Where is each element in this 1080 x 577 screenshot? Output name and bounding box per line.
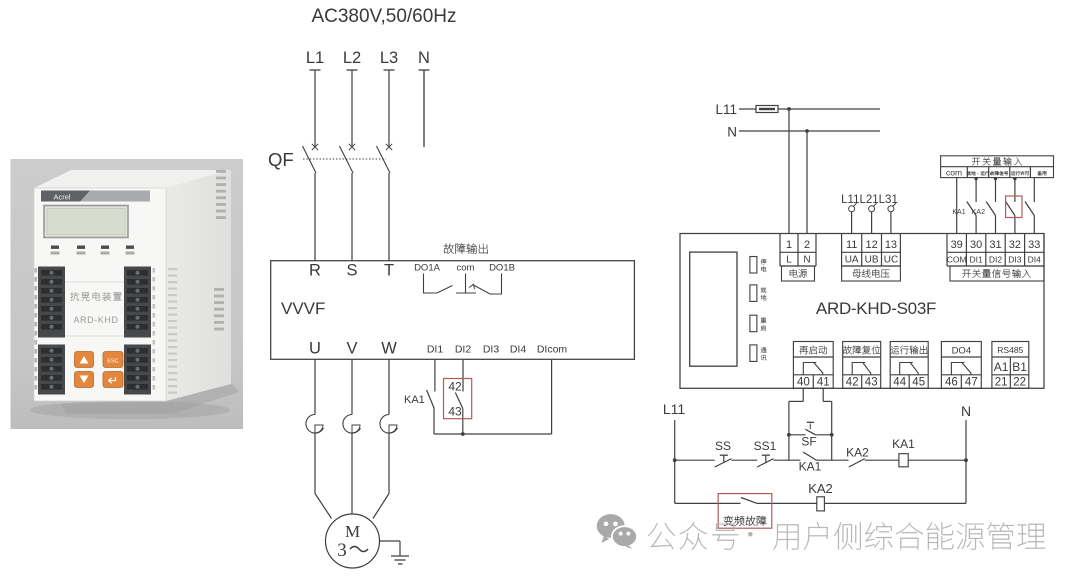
svg-text:com: com — [457, 263, 475, 274]
svg-text:L11: L11 — [715, 102, 737, 117]
svg-text:L11L21L31: L11L21L31 — [841, 194, 898, 206]
svg-text:SF: SF — [801, 435, 816, 449]
svg-text:QF: QF — [268, 149, 294, 170]
svg-text:KA1: KA1 — [404, 394, 425, 406]
svg-text:45: 45 — [912, 377, 925, 389]
svg-text:47: 47 — [965, 377, 978, 389]
svg-text:DI4: DI4 — [510, 344, 527, 356]
svg-text:DI1: DI1 — [969, 255, 983, 265]
svg-text:KA2: KA2 — [808, 481, 833, 496]
svg-text:2: 2 — [804, 239, 810, 251]
svg-text:L1: L1 — [306, 49, 324, 67]
svg-text:32: 32 — [1009, 239, 1021, 251]
svg-text:Acrel: Acrel — [53, 193, 70, 202]
svg-text:M: M — [345, 522, 360, 541]
svg-text:A1: A1 — [994, 360, 1009, 374]
svg-text:KA2: KA2 — [972, 209, 985, 216]
svg-text:46: 46 — [945, 377, 958, 389]
svg-text:43: 43 — [448, 405, 462, 419]
svg-text:UC: UC — [884, 255, 898, 266]
svg-text:RS485: RS485 — [997, 345, 1023, 355]
svg-text:DO4: DO4 — [952, 346, 972, 357]
svg-text:39: 39 — [951, 239, 963, 251]
svg-text:V: V — [346, 340, 357, 358]
svg-text:ESC: ESC — [107, 359, 118, 365]
svg-text:KA1: KA1 — [892, 437, 915, 451]
svg-text:L3: L3 — [380, 49, 398, 67]
svg-text:L: L — [786, 255, 792, 266]
svg-text:B1: B1 — [1012, 360, 1027, 374]
svg-text:R: R — [309, 262, 321, 280]
svg-text:22: 22 — [1013, 377, 1026, 389]
svg-text:S: S — [346, 262, 357, 280]
svg-text:COM: COM — [947, 255, 967, 265]
svg-text:SS1: SS1 — [754, 439, 777, 453]
svg-text:ARD-KHD: ARD-KHD — [73, 315, 118, 325]
svg-text:DI2: DI2 — [989, 255, 1003, 265]
svg-text:42: 42 — [448, 380, 462, 394]
svg-text:DO1A: DO1A — [414, 263, 441, 274]
svg-text:N: N — [727, 125, 737, 140]
svg-text:DI3: DI3 — [483, 344, 500, 356]
svg-text:30: 30 — [970, 239, 982, 251]
svg-text:33: 33 — [1028, 239, 1040, 251]
svg-text:21: 21 — [995, 377, 1008, 389]
svg-text:L11: L11 — [663, 401, 686, 417]
svg-text:N: N — [961, 403, 971, 419]
svg-text:UA: UA — [845, 255, 859, 266]
svg-text:12: 12 — [865, 239, 877, 251]
svg-text:3: 3 — [337, 540, 347, 561]
svg-text:VVVF: VVVF — [281, 299, 325, 318]
svg-text:DO1B: DO1B — [489, 263, 515, 274]
svg-text:40: 40 — [797, 377, 810, 389]
svg-text:U: U — [309, 340, 321, 358]
svg-text:UB: UB — [865, 255, 879, 266]
svg-text:AC380V,50/60Hz: AC380V,50/60Hz — [311, 6, 456, 27]
svg-text:com: com — [946, 167, 962, 177]
svg-text:T: T — [384, 262, 394, 280]
svg-text:41: 41 — [817, 377, 830, 389]
svg-text:DI3: DI3 — [1008, 255, 1022, 265]
svg-text:13: 13 — [885, 239, 897, 251]
svg-text:31: 31 — [989, 239, 1001, 251]
svg-text:N: N — [803, 255, 810, 266]
svg-text:1: 1 — [786, 239, 792, 251]
svg-text:KA1: KA1 — [952, 209, 965, 216]
svg-text:ARD-KHD-S03F: ARD-KHD-S03F — [816, 299, 936, 318]
svg-text:N: N — [418, 49, 430, 67]
svg-text:L2: L2 — [343, 49, 361, 67]
svg-text:43: 43 — [865, 377, 878, 389]
svg-text:KA2: KA2 — [846, 446, 869, 460]
svg-text:11: 11 — [846, 239, 857, 251]
svg-text:KA1: KA1 — [799, 460, 822, 474]
svg-text:DI1: DI1 — [427, 344, 444, 356]
svg-text:DIcom: DIcom — [537, 344, 568, 356]
svg-text:W: W — [381, 340, 397, 358]
svg-text:DI2: DI2 — [455, 344, 472, 356]
svg-text:SS: SS — [715, 439, 731, 453]
svg-text:DI4: DI4 — [1028, 255, 1042, 265]
svg-text:42: 42 — [846, 377, 859, 389]
svg-text:44: 44 — [893, 377, 906, 389]
